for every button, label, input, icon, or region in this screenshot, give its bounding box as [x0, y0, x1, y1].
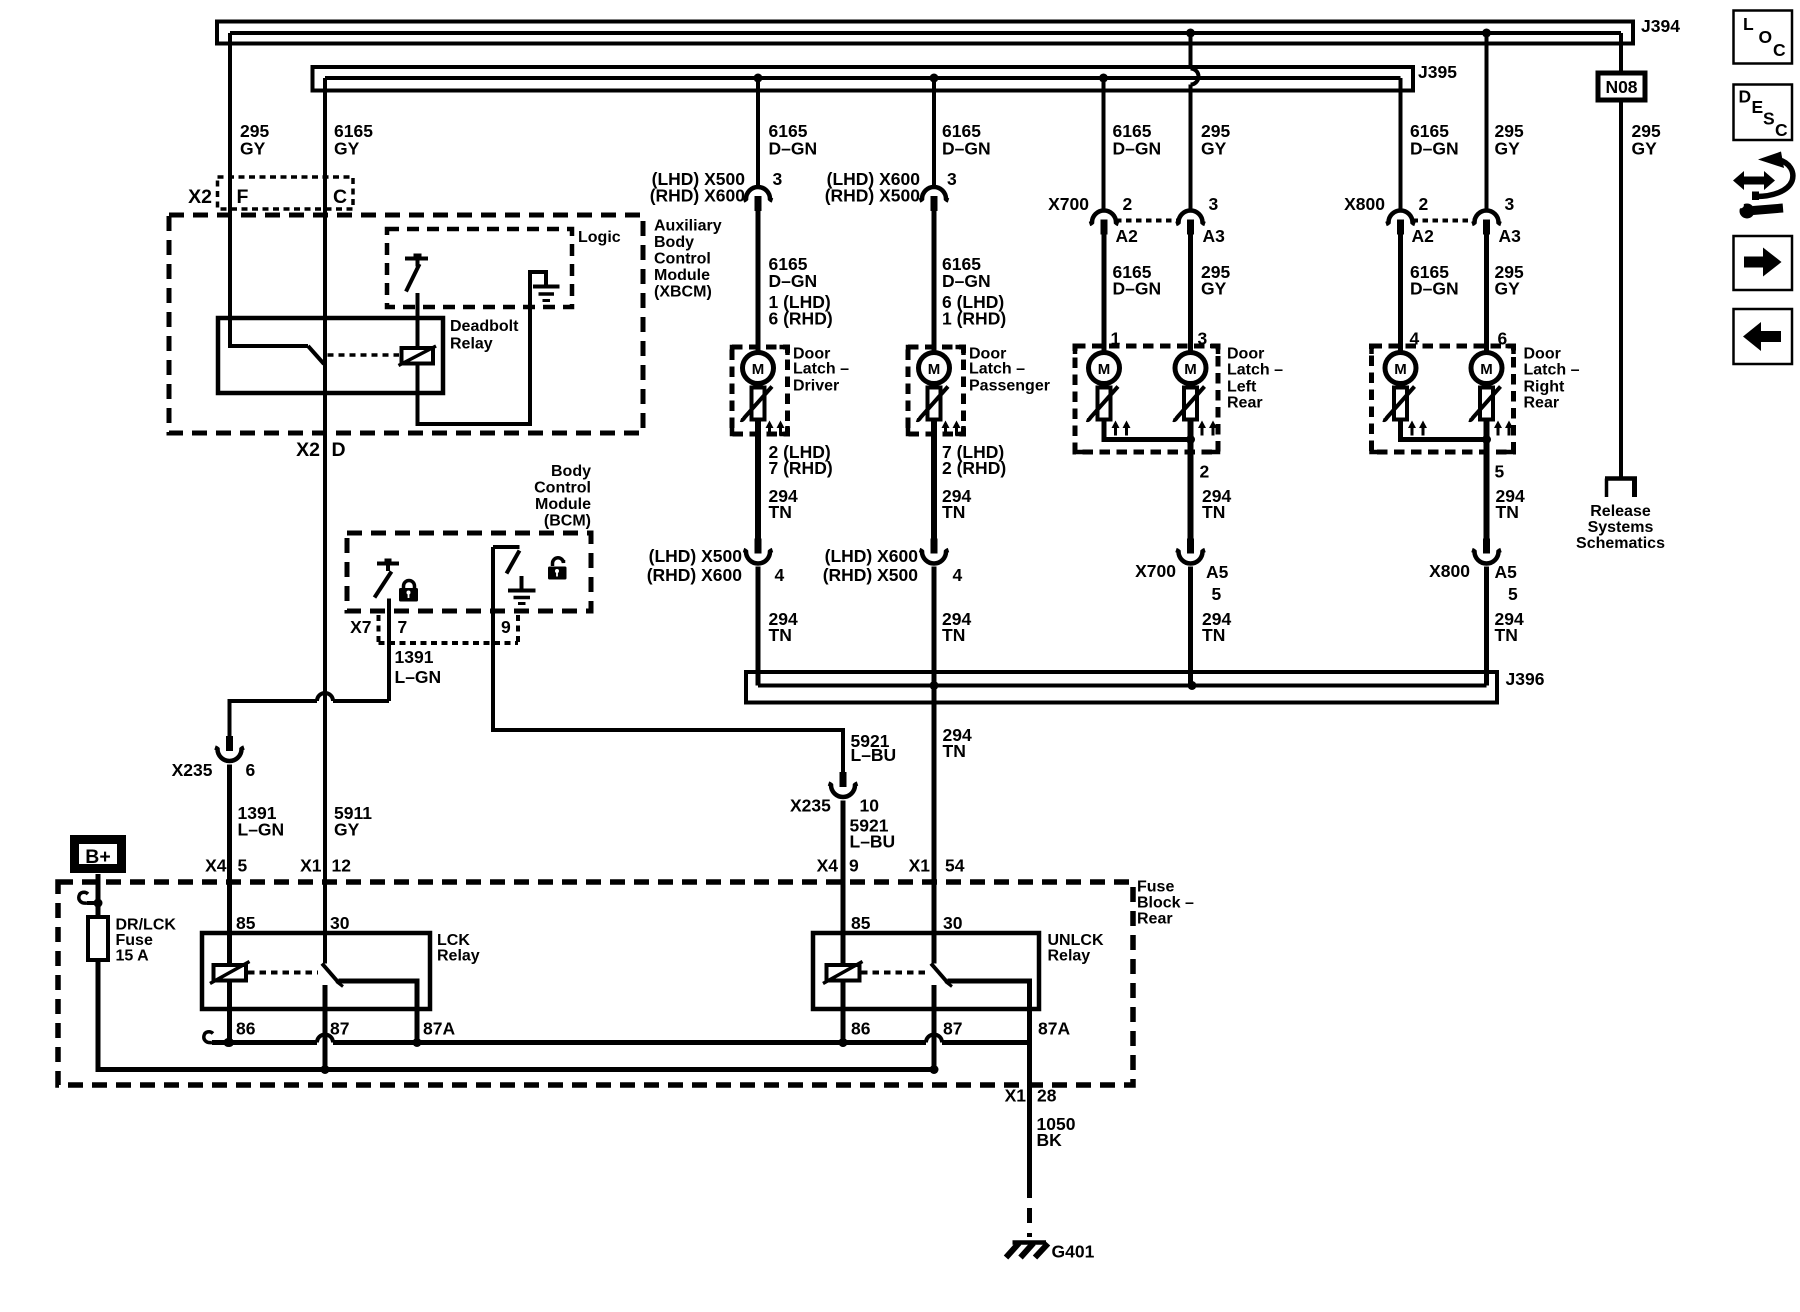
svg-text:X1: X1	[1005, 1086, 1027, 1106]
svg-text:M: M	[752, 361, 765, 378]
svg-text:7: 7	[398, 617, 408, 637]
svg-text:Rear: Rear	[1227, 395, 1263, 412]
svg-text:Schematics: Schematics	[1576, 535, 1665, 552]
svg-text:L–BU: L–BU	[850, 832, 896, 852]
svg-text:X800: X800	[1429, 561, 1470, 581]
svg-text:Deadbolt: Deadbolt	[450, 318, 519, 335]
svg-text:E: E	[1752, 97, 1764, 117]
svg-text:Relay: Relay	[450, 336, 493, 353]
svg-text:M: M	[928, 361, 941, 378]
svg-text:BK: BK	[1037, 1130, 1063, 1150]
svg-text:Left: Left	[1227, 379, 1257, 396]
svg-text:TN: TN	[1202, 502, 1225, 522]
svg-text:12: 12	[332, 856, 352, 876]
svg-text:D–GN: D–GN	[942, 271, 991, 291]
svg-text:86: 86	[851, 1019, 871, 1039]
svg-text:A3: A3	[1203, 226, 1226, 246]
svg-text:TN: TN	[942, 625, 965, 645]
svg-text:LCK: LCK	[437, 932, 470, 949]
svg-text:9: 9	[501, 617, 511, 637]
svg-text:Rear: Rear	[1137, 911, 1173, 928]
svg-text:1391: 1391	[395, 647, 434, 667]
svg-text:GY: GY	[334, 820, 360, 840]
svg-text:J396: J396	[1506, 669, 1545, 689]
svg-text:N08: N08	[1605, 77, 1637, 97]
svg-text:GY: GY	[1495, 139, 1521, 159]
svg-text:D–GN: D–GN	[942, 139, 991, 159]
svg-text:M: M	[1480, 361, 1493, 378]
svg-text:TN: TN	[1496, 502, 1519, 522]
svg-text:D–GN: D–GN	[769, 139, 818, 159]
svg-text:Body: Body	[654, 234, 694, 251]
svg-text:2: 2	[1200, 462, 1210, 482]
svg-text:5: 5	[1508, 584, 1518, 604]
svg-text:9: 9	[849, 856, 859, 876]
svg-text:C: C	[1775, 120, 1788, 140]
svg-text:D–GN: D–GN	[1113, 279, 1162, 299]
svg-text:Passenger: Passenger	[969, 378, 1050, 395]
svg-text:(BCM): (BCM)	[544, 513, 591, 530]
svg-text:X800: X800	[1344, 194, 1385, 214]
svg-text:7 (RHD): 7 (RHD)	[769, 458, 833, 478]
svg-text:GY: GY	[1632, 139, 1658, 159]
svg-text:87A: 87A	[1038, 1019, 1070, 1039]
svg-text:O: O	[1759, 27, 1773, 47]
svg-text:86: 86	[236, 1019, 256, 1039]
svg-text:87A: 87A	[423, 1019, 455, 1039]
svg-text:Latch –: Latch –	[1227, 362, 1283, 379]
svg-text:Fuse: Fuse	[1137, 879, 1174, 896]
svg-text:2: 2	[1419, 194, 1429, 214]
svg-text:54: 54	[945, 856, 965, 876]
svg-text:Body: Body	[551, 463, 591, 480]
svg-text:Module: Module	[535, 496, 591, 513]
svg-text:TN: TN	[943, 741, 966, 761]
svg-text:GY: GY	[334, 139, 360, 159]
svg-text:Control: Control	[654, 251, 711, 268]
svg-text:Latch –: Latch –	[1524, 362, 1580, 379]
svg-text:5: 5	[238, 856, 248, 876]
svg-text:X235: X235	[172, 760, 213, 780]
svg-text:Right: Right	[1524, 379, 1566, 396]
svg-text:A5: A5	[1495, 562, 1518, 582]
svg-text:2 (RHD): 2 (RHD)	[942, 458, 1006, 478]
svg-text:X7: X7	[350, 617, 371, 637]
svg-text:X4: X4	[205, 856, 227, 876]
svg-text:(RHD) X600: (RHD) X600	[647, 565, 743, 585]
svg-text:L–GN: L–GN	[395, 667, 442, 687]
svg-text:L–GN: L–GN	[238, 820, 285, 840]
svg-text:X4: X4	[817, 856, 839, 876]
svg-text:Door: Door	[1227, 346, 1264, 363]
svg-text:X700: X700	[1048, 194, 1089, 214]
svg-text:TN: TN	[769, 502, 792, 522]
svg-text:S: S	[1763, 109, 1775, 129]
svg-text:X2: X2	[188, 186, 212, 208]
svg-text:3: 3	[773, 169, 783, 189]
svg-text:(RHD) X600: (RHD) X600	[650, 186, 746, 206]
svg-text:Systems: Systems	[1588, 519, 1654, 536]
svg-text:UNLCK: UNLCK	[1048, 932, 1104, 949]
svg-text:C: C	[1773, 40, 1786, 60]
svg-text:X1: X1	[909, 856, 931, 876]
svg-text:D–GN: D–GN	[769, 271, 818, 291]
svg-text:TN: TN	[769, 625, 792, 645]
svg-text:6: 6	[246, 760, 256, 780]
svg-text:D–GN: D–GN	[1113, 139, 1162, 159]
svg-text:(LHD) X600: (LHD) X600	[825, 546, 919, 566]
svg-text:GY: GY	[1201, 279, 1227, 299]
svg-text:TN: TN	[1202, 625, 1225, 645]
svg-text:J395: J395	[1418, 62, 1457, 82]
svg-text:(XBCM): (XBCM)	[654, 284, 712, 301]
svg-text:Auxiliary: Auxiliary	[654, 218, 722, 235]
svg-text:A2: A2	[1412, 226, 1435, 246]
svg-text:Rear: Rear	[1524, 395, 1560, 412]
svg-text:F: F	[237, 186, 249, 208]
svg-text:DR/LCK: DR/LCK	[116, 917, 177, 934]
svg-text:4: 4	[953, 565, 963, 585]
svg-text:(RHD) X500: (RHD) X500	[823, 565, 919, 585]
svg-text:X235: X235	[790, 796, 831, 816]
svg-text:TN: TN	[942, 502, 965, 522]
svg-text:3: 3	[1505, 194, 1515, 214]
svg-text:L–BU: L–BU	[851, 745, 897, 765]
svg-text:Fuse: Fuse	[116, 932, 153, 949]
svg-text:GY: GY	[240, 139, 266, 159]
svg-text:B+: B+	[85, 846, 110, 868]
svg-text:Relay: Relay	[1048, 948, 1091, 965]
svg-text:87: 87	[330, 1019, 349, 1039]
svg-text:4: 4	[775, 565, 785, 585]
svg-text:M: M	[1394, 361, 1407, 378]
svg-text:85: 85	[851, 913, 871, 933]
svg-text:85: 85	[236, 913, 256, 933]
svg-text:TN: TN	[1495, 625, 1518, 645]
svg-text:87: 87	[943, 1019, 962, 1039]
svg-text:D: D	[1739, 87, 1752, 107]
svg-text:J394: J394	[1641, 16, 1680, 36]
svg-text:Control: Control	[534, 480, 591, 497]
svg-text:3: 3	[1209, 194, 1219, 214]
svg-text:Module: Module	[654, 267, 710, 284]
svg-text:Latch –: Latch –	[793, 361, 849, 378]
svg-text:A2: A2	[1116, 226, 1139, 246]
svg-text:C: C	[333, 186, 347, 208]
svg-text:X2: X2	[296, 439, 320, 461]
svg-text:Relay: Relay	[437, 948, 480, 965]
svg-text:GY: GY	[1201, 139, 1227, 159]
svg-text:(LHD) X500: (LHD) X500	[649, 546, 743, 566]
svg-text:30: 30	[330, 913, 350, 933]
svg-text:2: 2	[1123, 194, 1133, 214]
svg-text:Driver: Driver	[793, 378, 839, 395]
svg-text:Logic: Logic	[578, 229, 621, 246]
svg-text:A3: A3	[1499, 226, 1522, 246]
svg-text:(RHD) X500: (RHD) X500	[825, 186, 921, 206]
svg-text:1 (RHD): 1 (RHD)	[942, 309, 1006, 329]
svg-text:L: L	[1743, 14, 1754, 34]
svg-text:28: 28	[1037, 1086, 1057, 1106]
svg-text:5: 5	[1212, 584, 1222, 604]
svg-text:3: 3	[947, 169, 957, 189]
svg-text:30: 30	[943, 913, 963, 933]
svg-text:M: M	[1098, 361, 1111, 378]
svg-text:Door: Door	[1524, 346, 1561, 363]
svg-text:10: 10	[860, 796, 880, 816]
svg-text:X700: X700	[1135, 561, 1176, 581]
svg-text:A5: A5	[1206, 562, 1229, 582]
svg-text:D–GN: D–GN	[1410, 139, 1459, 159]
svg-text:6 (RHD): 6 (RHD)	[769, 309, 833, 329]
svg-text:Release: Release	[1590, 503, 1651, 520]
svg-text:M: M	[1184, 361, 1197, 378]
svg-text:15 A: 15 A	[116, 948, 150, 965]
svg-text:D–GN: D–GN	[1410, 279, 1459, 299]
svg-text:GY: GY	[1495, 279, 1521, 299]
svg-text:X1: X1	[300, 856, 322, 876]
svg-text:5: 5	[1495, 462, 1505, 482]
svg-text:G401: G401	[1052, 1242, 1095, 1262]
svg-text:D: D	[332, 439, 346, 461]
svg-text:Block –: Block –	[1137, 895, 1194, 912]
svg-text:Latch –: Latch –	[969, 361, 1025, 378]
